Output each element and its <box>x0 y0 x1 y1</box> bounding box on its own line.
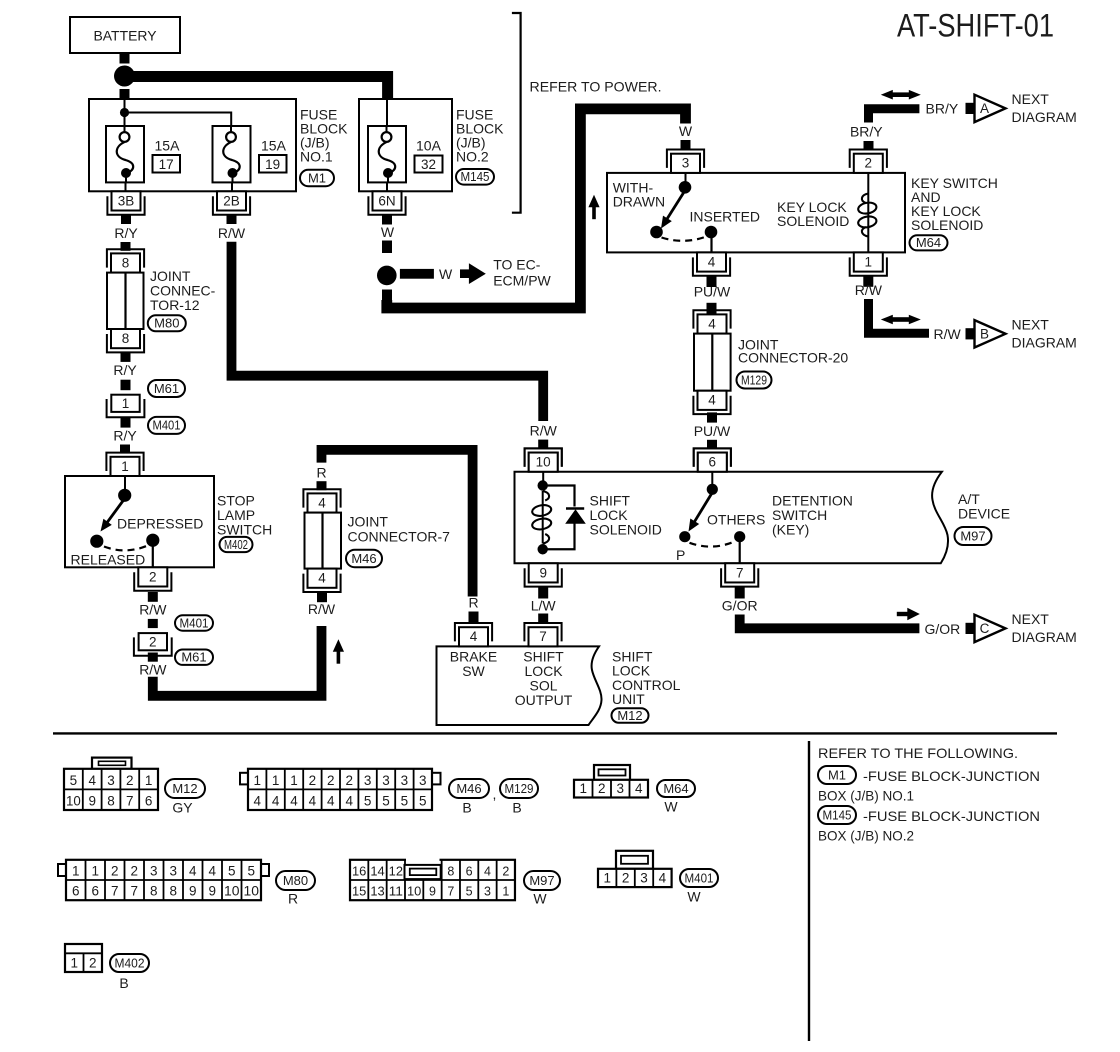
svg-text:2: 2 <box>89 956 97 971</box>
svg-text:3: 3 <box>419 773 427 788</box>
svg-text:6: 6 <box>466 865 473 879</box>
svg-text:1: 1 <box>579 781 587 796</box>
svg-text:OUTPUT: OUTPUT <box>515 692 573 708</box>
svg-text:SOLENOID: SOLENOID <box>777 213 849 229</box>
svg-text:ECM/PW: ECM/PW <box>493 272 551 288</box>
svg-text:2: 2 <box>327 773 335 788</box>
svg-text:15A: 15A <box>155 138 181 154</box>
svg-text:10: 10 <box>536 455 551 470</box>
svg-text:7: 7 <box>111 884 119 899</box>
svg-text:DEPRESSED: DEPRESSED <box>117 516 203 532</box>
svg-text:INSERTED: INSERTED <box>690 209 761 225</box>
svg-text:4: 4 <box>290 794 298 809</box>
svg-text:W: W <box>533 891 547 907</box>
svg-text:JOINT: JOINT <box>348 514 389 530</box>
svg-text:M129: M129 <box>741 373 767 387</box>
svg-text:4: 4 <box>484 865 491 879</box>
svg-text:2: 2 <box>130 864 138 879</box>
svg-text:3: 3 <box>682 156 690 171</box>
svg-text:-FUSE BLOCK-JUNCTION: -FUSE BLOCK-JUNCTION <box>863 808 1040 824</box>
svg-text:4: 4 <box>208 864 216 879</box>
svg-text:R: R <box>316 465 326 481</box>
svg-text:3: 3 <box>150 864 158 879</box>
svg-text:UNIT: UNIT <box>612 691 645 707</box>
svg-text:R/W: R/W <box>855 282 883 298</box>
svg-text:1: 1 <box>253 773 261 788</box>
svg-text:NEXT: NEXT <box>1012 91 1050 107</box>
svg-text:TO EC-: TO EC- <box>493 256 541 272</box>
svg-text:AT-SHIFT-01: AT-SHIFT-01 <box>897 8 1054 44</box>
svg-text:1: 1 <box>121 459 129 474</box>
svg-text:M401: M401 <box>180 616 209 630</box>
svg-text:4: 4 <box>708 254 716 269</box>
svg-text:11: 11 <box>389 885 403 899</box>
svg-text:1: 1 <box>72 864 80 879</box>
svg-text:P: P <box>676 547 685 563</box>
svg-text:,: , <box>493 786 497 802</box>
svg-text:M80: M80 <box>154 316 179 331</box>
svg-text:8: 8 <box>107 794 115 809</box>
svg-text:5: 5 <box>364 794 372 809</box>
svg-text:1: 1 <box>91 864 99 879</box>
svg-text:10: 10 <box>224 884 240 899</box>
svg-text:8: 8 <box>122 255 130 270</box>
svg-text:B: B <box>512 800 521 816</box>
svg-text:7: 7 <box>539 629 547 644</box>
svg-text:G/OR: G/OR <box>722 598 758 614</box>
svg-text:4: 4 <box>253 794 261 809</box>
svg-text:SW: SW <box>462 663 485 679</box>
svg-text:R: R <box>468 595 478 611</box>
svg-text:1: 1 <box>145 773 153 788</box>
svg-text:4: 4 <box>635 781 643 796</box>
svg-text:-FUSE BLOCK-JUNCTION: -FUSE BLOCK-JUNCTION <box>863 768 1040 784</box>
svg-text:W: W <box>679 123 693 139</box>
svg-text:PU/W: PU/W <box>694 284 731 300</box>
svg-text:2: 2 <box>622 871 630 886</box>
svg-text:12: 12 <box>389 865 403 879</box>
svg-text:5: 5 <box>401 794 409 809</box>
svg-text:1: 1 <box>603 871 611 886</box>
svg-text:M61: M61 <box>154 381 179 396</box>
svg-text:4: 4 <box>272 794 280 809</box>
svg-text:4: 4 <box>327 794 335 809</box>
svg-text:M12: M12 <box>617 708 642 723</box>
svg-text:M1: M1 <box>308 170 326 185</box>
svg-text:NO.1: NO.1 <box>300 149 333 165</box>
svg-text:17: 17 <box>159 157 174 172</box>
svg-text:M46: M46 <box>351 551 376 566</box>
svg-text:7: 7 <box>736 565 744 580</box>
svg-text:R/W: R/W <box>139 602 167 618</box>
svg-text:3: 3 <box>364 773 372 788</box>
svg-text:M402: M402 <box>224 538 248 552</box>
svg-text:B: B <box>980 327 989 342</box>
svg-text:10: 10 <box>66 794 81 809</box>
svg-text:M61: M61 <box>181 650 206 665</box>
svg-text:3: 3 <box>382 773 390 788</box>
svg-text:OTHERS: OTHERS <box>707 512 765 528</box>
svg-text:RELEASED: RELEASED <box>71 552 146 568</box>
svg-text:2B: 2B <box>223 193 240 208</box>
svg-text:GY: GY <box>172 800 193 816</box>
svg-text:4: 4 <box>708 393 716 408</box>
svg-text:4: 4 <box>309 794 317 809</box>
svg-text:1: 1 <box>502 885 509 899</box>
svg-text:6N: 6N <box>378 193 395 208</box>
svg-text:L/W: L/W <box>531 598 557 614</box>
svg-text:3: 3 <box>640 871 648 886</box>
svg-text:8: 8 <box>169 884 177 899</box>
svg-text:B: B <box>119 975 128 991</box>
svg-text:CONNECTOR-20: CONNECTOR-20 <box>738 350 848 366</box>
svg-text:6: 6 <box>72 884 80 899</box>
svg-text:14: 14 <box>370 865 384 879</box>
svg-text:1: 1 <box>272 773 280 788</box>
svg-text:DIAGRAM: DIAGRAM <box>1012 629 1077 645</box>
svg-text:M1: M1 <box>828 767 846 782</box>
svg-text:NEXT: NEXT <box>1012 317 1050 333</box>
svg-text:3: 3 <box>616 781 624 796</box>
svg-text:M97: M97 <box>529 873 554 888</box>
svg-text:SWITCH: SWITCH <box>217 522 272 538</box>
svg-text:16: 16 <box>352 865 366 879</box>
svg-text:W: W <box>687 889 701 905</box>
svg-text:M64: M64 <box>916 235 941 250</box>
svg-text:W: W <box>664 799 678 815</box>
svg-text:M64: M64 <box>663 781 688 796</box>
svg-text:5: 5 <box>466 885 473 899</box>
svg-text:15: 15 <box>352 885 366 899</box>
svg-text:6: 6 <box>709 455 717 470</box>
svg-text:4: 4 <box>88 773 96 788</box>
svg-text:M129: M129 <box>505 782 534 796</box>
svg-text:10: 10 <box>407 885 421 899</box>
svg-text:1: 1 <box>290 773 298 788</box>
svg-text:7: 7 <box>126 794 134 809</box>
svg-text:8: 8 <box>150 884 158 899</box>
svg-text:19: 19 <box>265 157 280 172</box>
svg-text:4: 4 <box>470 629 478 644</box>
svg-text:M97: M97 <box>960 528 985 543</box>
svg-text:2: 2 <box>345 773 353 788</box>
svg-text:2: 2 <box>149 569 157 584</box>
svg-text:8: 8 <box>122 331 130 346</box>
svg-text:NEXT: NEXT <box>1012 611 1050 627</box>
svg-text:8: 8 <box>447 865 454 879</box>
svg-text:M401: M401 <box>153 419 181 433</box>
svg-text:9: 9 <box>208 884 216 899</box>
svg-text:M46: M46 <box>456 781 481 796</box>
svg-text:R/Y: R/Y <box>114 225 138 241</box>
svg-text:9: 9 <box>189 884 197 899</box>
svg-text:6: 6 <box>91 884 99 899</box>
svg-text:PU/W: PU/W <box>694 423 731 439</box>
svg-text:DEVICE: DEVICE <box>958 506 1010 522</box>
svg-text:M402: M402 <box>115 956 145 970</box>
svg-text:7: 7 <box>447 885 454 899</box>
svg-text:M145: M145 <box>461 170 490 184</box>
svg-text:5: 5 <box>419 794 427 809</box>
svg-text:3: 3 <box>401 773 409 788</box>
svg-text:32: 32 <box>421 157 436 172</box>
svg-text:M145: M145 <box>823 808 852 822</box>
svg-text:6: 6 <box>145 794 153 809</box>
svg-text:R/W: R/W <box>139 662 167 678</box>
svg-text:R/W: R/W <box>218 225 246 241</box>
svg-text:1: 1 <box>865 254 873 269</box>
svg-text:5: 5 <box>228 864 236 879</box>
svg-text:W: W <box>439 266 453 282</box>
svg-text:4: 4 <box>189 864 197 879</box>
svg-text:SOLENOID: SOLENOID <box>911 217 983 233</box>
svg-text:10: 10 <box>244 884 260 899</box>
svg-text:R/W: R/W <box>530 423 558 439</box>
svg-text:4: 4 <box>318 571 326 586</box>
svg-text:BR/Y: BR/Y <box>850 124 883 140</box>
svg-text:CONNECTOR-7: CONNECTOR-7 <box>348 529 451 545</box>
svg-text:DIAGRAM: DIAGRAM <box>1012 109 1077 125</box>
svg-text:2: 2 <box>309 773 317 788</box>
svg-text:5: 5 <box>382 794 390 809</box>
svg-text:M80: M80 <box>283 873 308 888</box>
svg-text:M401: M401 <box>685 871 714 885</box>
svg-text:A: A <box>980 101 989 116</box>
svg-text:3: 3 <box>484 885 491 899</box>
svg-text:2: 2 <box>126 773 134 788</box>
svg-text:DRAWN: DRAWN <box>613 194 665 210</box>
svg-text:B: B <box>462 800 471 816</box>
svg-text:2: 2 <box>865 156 873 171</box>
svg-text:R/Y: R/Y <box>113 428 137 444</box>
svg-text:4: 4 <box>659 871 667 886</box>
svg-text:BR/Y: BR/Y <box>926 101 959 117</box>
svg-text:1: 1 <box>122 396 130 411</box>
svg-text:10A: 10A <box>416 138 442 154</box>
svg-text:REFER TO POWER.: REFER TO POWER. <box>530 79 662 95</box>
svg-text:2: 2 <box>111 864 119 879</box>
svg-text:15A: 15A <box>261 138 287 154</box>
svg-text:W: W <box>381 224 395 240</box>
svg-text:R/W: R/W <box>308 601 336 617</box>
svg-text:C: C <box>980 621 990 636</box>
svg-text:9: 9 <box>429 885 436 899</box>
svg-text:2: 2 <box>149 634 157 649</box>
svg-text:R: R <box>288 891 298 907</box>
svg-text:BOX (J/B) NO.2: BOX (J/B) NO.2 <box>818 828 914 844</box>
svg-text:4: 4 <box>708 316 716 331</box>
svg-text:TOR-12: TOR-12 <box>150 297 200 313</box>
svg-text:(KEY): (KEY) <box>772 522 809 538</box>
svg-text:R/Y: R/Y <box>113 362 137 378</box>
svg-text:NO.2: NO.2 <box>456 149 489 165</box>
svg-text:2: 2 <box>502 865 509 879</box>
svg-text:5: 5 <box>247 864 255 879</box>
svg-text:3B: 3B <box>118 193 135 208</box>
svg-text:13: 13 <box>370 885 384 899</box>
svg-text:4: 4 <box>345 794 353 809</box>
svg-text:REFER TO THE FOLLOWING.: REFER TO THE FOLLOWING. <box>818 745 1018 761</box>
svg-text:3: 3 <box>107 773 115 788</box>
svg-text:1: 1 <box>70 956 78 971</box>
svg-text:9: 9 <box>539 565 547 580</box>
svg-text:SOLENOID: SOLENOID <box>590 522 662 538</box>
svg-text:M12: M12 <box>172 781 197 796</box>
svg-text:3: 3 <box>169 864 177 879</box>
svg-text:R/W: R/W <box>934 326 962 342</box>
svg-text:2: 2 <box>598 781 606 796</box>
svg-text:5: 5 <box>70 773 78 788</box>
svg-text:BATTERY: BATTERY <box>94 28 158 44</box>
svg-text:9: 9 <box>88 794 96 809</box>
svg-text:G/OR: G/OR <box>925 621 961 637</box>
svg-text:BOX (J/B) NO.1: BOX (J/B) NO.1 <box>818 788 914 804</box>
svg-text:4: 4 <box>318 495 326 510</box>
svg-text:DIAGRAM: DIAGRAM <box>1012 334 1077 350</box>
svg-text:7: 7 <box>130 884 138 899</box>
